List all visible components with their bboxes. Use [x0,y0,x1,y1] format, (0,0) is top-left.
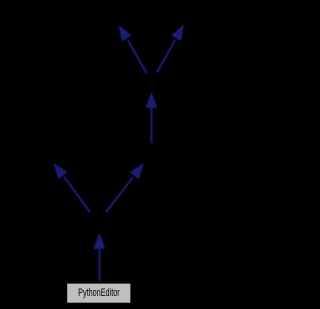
wire: arrow middle up-left [53,163,90,213]
wire: arrow PythonEditor to parent (vertical, bottom) [93,232,105,281]
wire: arrow middle up-right [106,163,144,212]
wire: arrow upper vertical [146,92,158,144]
wire: arrow top up-left [119,25,147,74]
node PythonEditor (current class box) [67,284,130,303]
svg-text:PythonEditor: PythonEditor [78,287,120,299]
inheritance graph for PythonEditor (doxygen style, black background) [0,0,223,309]
wire: arrow top up-right [157,24,184,73]
